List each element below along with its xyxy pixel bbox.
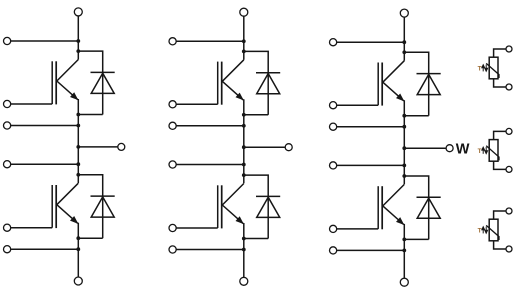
wire module 1 lower bus segment [77, 223, 79, 277]
svg-text:W: W [456, 141, 470, 157]
transistor Q13 body bar [381, 63, 383, 106]
transistor Q12 gate bar [217, 62, 219, 105]
transistor Q11 collector lead [57, 60, 79, 82]
thermistor NTC1 body [489, 57, 498, 79]
wire diode D22 anode return [244, 238, 268, 240]
transistor Q21 emitter lead [57, 205, 78, 224]
module 3 phase output terminal [446, 145, 453, 152]
wire module 2 lower gate lead [176, 227, 218, 229]
node module 3 lower emitter junction [402, 238, 406, 242]
module 2 upper aux emitter terminal E21 [169, 122, 176, 129]
module 2 lower collector aux terminal C22 [169, 161, 176, 168]
diode D12 cathode-anode line [267, 73, 269, 115]
wire module 1 lower diode branch [78, 175, 102, 196]
thermistor NTC2 label down arrow [485, 147, 487, 153]
wire module 3 upper aux emitter lead [337, 126, 405, 128]
diode D11 triangle [91, 73, 114, 93]
transistor Q21 gate bar [51, 185, 53, 228]
wire module 1 lower collector aux lead [11, 163, 79, 165]
node module 3 lower aux emitter junction [402, 249, 406, 253]
thermistor NTC3 body [489, 219, 498, 241]
wire module 3 lower aux emitter lead [337, 249, 405, 251]
wire module 2 lower aux emitter lead [176, 249, 244, 251]
diode D13 triangle [417, 74, 440, 94]
node module 1 upper aux emitter junction [76, 124, 80, 128]
wire module 2 upper bus segment [243, 41, 245, 60]
transistor Q23 emitter arrow [397, 218, 404, 225]
node module 1 lower collector junction [76, 162, 80, 166]
diode D11 cathode-anode line [102, 72, 104, 114]
module 1 lower gate terminal G12 [4, 224, 11, 231]
diode D22 triangle [257, 197, 280, 217]
diode D21 cathode bar [91, 195, 115, 197]
module 3 gate terminal G31 [330, 102, 337, 109]
thermistor NTC1 top terminal [506, 46, 512, 52]
wire module 1 lower gate lead [11, 227, 53, 229]
module 2 lower gate terminal G22 [169, 224, 176, 231]
module 3 lower aux emitter terminal E32 [330, 247, 337, 254]
transistor Q22 gate bar [217, 185, 219, 228]
wire module 2 upper gate lead [176, 103, 218, 105]
wire module 3 upper gate lead [337, 104, 379, 106]
wire diode D23 anode return [404, 238, 428, 240]
wire module 1 upper gate lead [11, 103, 53, 105]
node module 3 lower diode branch junction [402, 174, 406, 178]
svg-text:T: T [478, 66, 482, 73]
thermistor NTC1 bottom terminal [506, 84, 512, 90]
node module 2 lower diode branch junction [242, 173, 246, 177]
node module 1 lower aux emitter junction [76, 247, 80, 251]
wire module 2 top terminal to bus [243, 16, 245, 41]
thermistor NTC1 diagonal stroke [486, 63, 499, 78]
module 2 DC- terminal (emitter bottom) [240, 277, 248, 285]
wire module 1 lower aux emitter lead [11, 248, 79, 250]
wire module 2 phase output lead [244, 146, 285, 148]
wire thermistor NTC3 bottom lead [494, 241, 506, 249]
node module 1 upper emitter junction [76, 113, 80, 117]
transistor Q23 body bar [381, 186, 383, 229]
wire diode D13 anode return [404, 115, 428, 117]
wire module 2 lower diode branch [244, 175, 268, 196]
node module 1 upper diode branch junction [76, 49, 80, 53]
node module 3 upper aux emitter junction [402, 125, 406, 129]
transistor Q13 collector lead [383, 61, 405, 82]
transistor Q12 emitter lead [222, 81, 243, 100]
wire thermistor NTC2 bottom lead [494, 161, 506, 169]
transistor Q23 collector lead [383, 184, 405, 206]
thermistor NTC1 label down arrow [485, 65, 487, 71]
wire module 3 middle bus segment [403, 100, 405, 184]
node module 3 collector junction [402, 40, 406, 44]
transistor Q11 emitter lead [57, 81, 78, 100]
wire module 2 collector terminal to bus [176, 40, 244, 42]
transistor Q22 emitter lead [222, 205, 243, 224]
transistor Q12 body bar [221, 62, 223, 105]
node module 1 lower diode branch junction [76, 173, 80, 177]
wire module 3 lower collector aux lead [337, 164, 405, 166]
thermistor NTC2 label up arrow [482, 148, 484, 154]
module 1 lower aux emitter terminal E12 [4, 246, 11, 253]
wire module 1 upper aux emitter lead [11, 125, 79, 127]
module 1 collector terminal C1 [4, 37, 11, 44]
diode D13 cathode bar [417, 73, 441, 75]
wire thermistor NTC3 top lead [494, 211, 506, 219]
thermistor NTC2 top terminal [506, 128, 512, 134]
module 3 lower collector aux terminal C32 [330, 162, 337, 169]
diode D12 cathode bar [256, 72, 280, 74]
node module 2 lower collector junction [242, 163, 246, 167]
svg-text:T: T [478, 228, 482, 235]
wire module 1 upper bus segment [77, 41, 79, 60]
node module 1 phase output junction [76, 145, 80, 149]
wire module 3 collector terminal to bus [337, 41, 405, 43]
transistor Q21 emitter arrow [71, 216, 78, 223]
node module 2 collector junction [242, 39, 246, 43]
module 3 DC+ terminal (collector top) [400, 9, 408, 17]
thermistor NTC1 label up arrow [482, 65, 484, 71]
thermistor NTC3 diagonal stroke [486, 225, 499, 240]
transistor Q22 body bar [221, 185, 223, 228]
diode D22 cathode bar [256, 195, 280, 197]
module 2 phase output terminal [285, 144, 292, 151]
module 3 lower gate terminal G32 [330, 225, 337, 232]
module 2 gate terminal G21 [169, 101, 176, 108]
module 1 gate terminal G11 [4, 100, 11, 107]
wire module 3 upper diode branch [404, 52, 428, 73]
diode D23 cathode bar [417, 196, 441, 198]
node module 2 upper diode branch junction [242, 50, 246, 54]
transistor Q12 emitter arrow [236, 93, 243, 100]
wire module 2 middle bus segment [243, 99, 245, 183]
diode D23 triangle [417, 198, 440, 218]
wire module 3 top terminal to bus [403, 17, 405, 42]
node module 3 upper emitter junction [402, 114, 406, 118]
wire module 3 phase output lead [404, 147, 446, 149]
module 1 DC- terminal (emitter bottom) [74, 277, 82, 285]
module 3 upper aux emitter terminal E31 [330, 123, 337, 130]
diode D21 cathode-anode line [102, 196, 104, 238]
node module 3 upper diode branch junction [402, 50, 406, 54]
transistor Q22 collector lead [222, 184, 244, 206]
module 2 collector terminal C2 [169, 38, 176, 45]
node module 3 lower collector junction [402, 164, 406, 168]
module 1 DC+ terminal (collector top) [74, 8, 82, 16]
wire module 2 lower bus segment [243, 223, 245, 277]
module 3 DC- terminal (emitter bottom) [400, 278, 408, 286]
transistor Q13 emitter arrow [397, 94, 404, 101]
thermistor NTC2 body [489, 140, 498, 162]
wire module 1 phase output lead [78, 146, 118, 148]
module 1 upper aux emitter terminal E11 [4, 122, 11, 129]
wire module 1 top terminal to bus [77, 16, 79, 41]
thermistor NTC3 top terminal [506, 208, 512, 214]
node module 2 upper emitter junction [242, 113, 246, 117]
diode D13 cathode-anode line [428, 74, 430, 116]
wire diode D11 anode return [78, 114, 102, 116]
wire module 1 middle bus segment [77, 99, 79, 183]
wire module 3 lower bus segment [403, 224, 405, 278]
node module 2 lower emitter junction [242, 237, 246, 241]
module 3 collector terminal C3 [330, 39, 337, 46]
transistor Q23 gate bar [377, 186, 379, 229]
transistor Q21 collector lead [57, 183, 79, 205]
diode D12 triangle [257, 74, 280, 94]
diode D22 cathode-anode line [267, 196, 269, 238]
wire thermistor NTC1 top lead [494, 49, 506, 57]
module 2 lower aux emitter terminal E22 [169, 246, 176, 253]
thermistor NTC3 bottom terminal [506, 246, 512, 252]
thermistor NTC2 diagonal stroke [486, 146, 499, 161]
wire diode D12 anode return [244, 114, 268, 116]
node module 3 phase output junction [402, 146, 406, 150]
thermistor NTC2 bottom terminal [506, 166, 512, 172]
node module 2 upper aux emitter junction [242, 124, 246, 128]
transistor Q13 gate bar [377, 63, 379, 106]
wire module 2 lower collector aux lead [176, 164, 244, 166]
diode D23 cathode-anode line [428, 197, 430, 239]
transistor Q12 collector lead [222, 60, 244, 82]
wire module 1 upper diode branch [78, 51, 102, 72]
transistor Q13 emitter lead [383, 82, 404, 101]
wire module 1 collector terminal to bus [11, 40, 79, 42]
transistor Q11 gate bar [51, 61, 53, 104]
wire module 2 upper aux emitter lead [176, 125, 244, 127]
node module 1 lower emitter junction [76, 236, 80, 240]
transistor Q23 emitter lead [383, 206, 404, 225]
transistor Q11 body bar [55, 61, 57, 104]
wire module 3 lower diode branch [404, 176, 428, 197]
svg-text:T: T [478, 148, 482, 155]
wire thermistor NTC1 bottom lead [494, 79, 506, 87]
wire module 3 lower gate lead [337, 228, 379, 230]
transistor Q11 emitter arrow [71, 93, 78, 100]
transistor Q21 body bar [55, 185, 57, 228]
transistor Q22 emitter arrow [236, 217, 243, 224]
node module 1 collector junction [76, 39, 80, 43]
node module 2 lower aux emitter junction [242, 248, 246, 252]
thermistor NTC3 label down arrow [485, 227, 487, 233]
wire module 3 upper bus segment [403, 42, 405, 61]
diode D21 triangle [91, 197, 114, 217]
wire thermistor NTC2 top lead [494, 131, 506, 139]
module 1 phase output terminal [118, 143, 125, 150]
node module 2 phase output junction [242, 145, 246, 149]
thermistor NTC3 label up arrow [482, 227, 484, 233]
module 1 lower collector aux terminal C12 [4, 161, 11, 168]
module 2 DC+ terminal (collector top) [240, 8, 248, 16]
wire module 2 upper diode branch [244, 51, 268, 72]
wire diode D21 anode return [78, 237, 102, 239]
diode D11 cathode bar [91, 71, 115, 73]
